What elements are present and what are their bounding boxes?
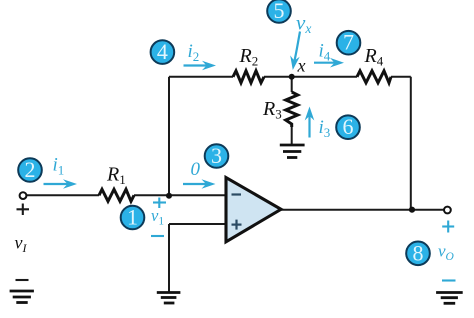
svg-text:8: 8 <box>413 240 424 265</box>
svg-text:2: 2 <box>25 157 36 182</box>
svg-text:0: 0 <box>191 159 201 180</box>
svg-text:3: 3 <box>211 143 222 168</box>
svg-text:x: x <box>297 56 306 76</box>
svg-text:1: 1 <box>127 205 138 230</box>
svg-text:7: 7 <box>343 30 354 55</box>
svg-text:4: 4 <box>157 39 168 64</box>
svg-text:5: 5 <box>274 0 285 23</box>
svg-text:6: 6 <box>343 114 354 139</box>
